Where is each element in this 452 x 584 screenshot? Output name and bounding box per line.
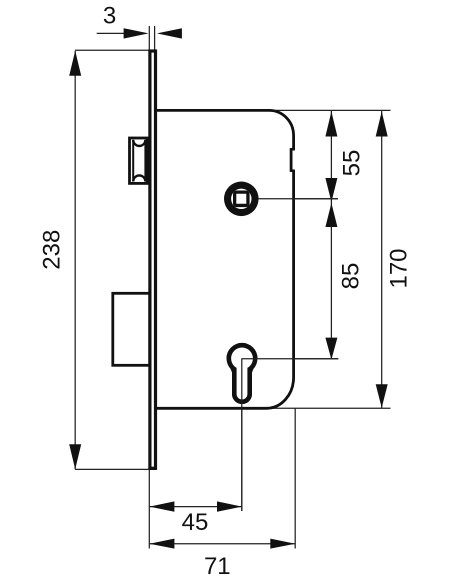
svg-text:55: 55 xyxy=(339,150,366,177)
svg-text:238: 238 xyxy=(39,230,66,270)
svg-text:3: 3 xyxy=(103,2,116,29)
svg-text:170: 170 xyxy=(386,248,413,288)
svg-text:85: 85 xyxy=(338,263,365,290)
svg-text:71: 71 xyxy=(204,553,231,580)
svg-text:45: 45 xyxy=(182,509,209,536)
